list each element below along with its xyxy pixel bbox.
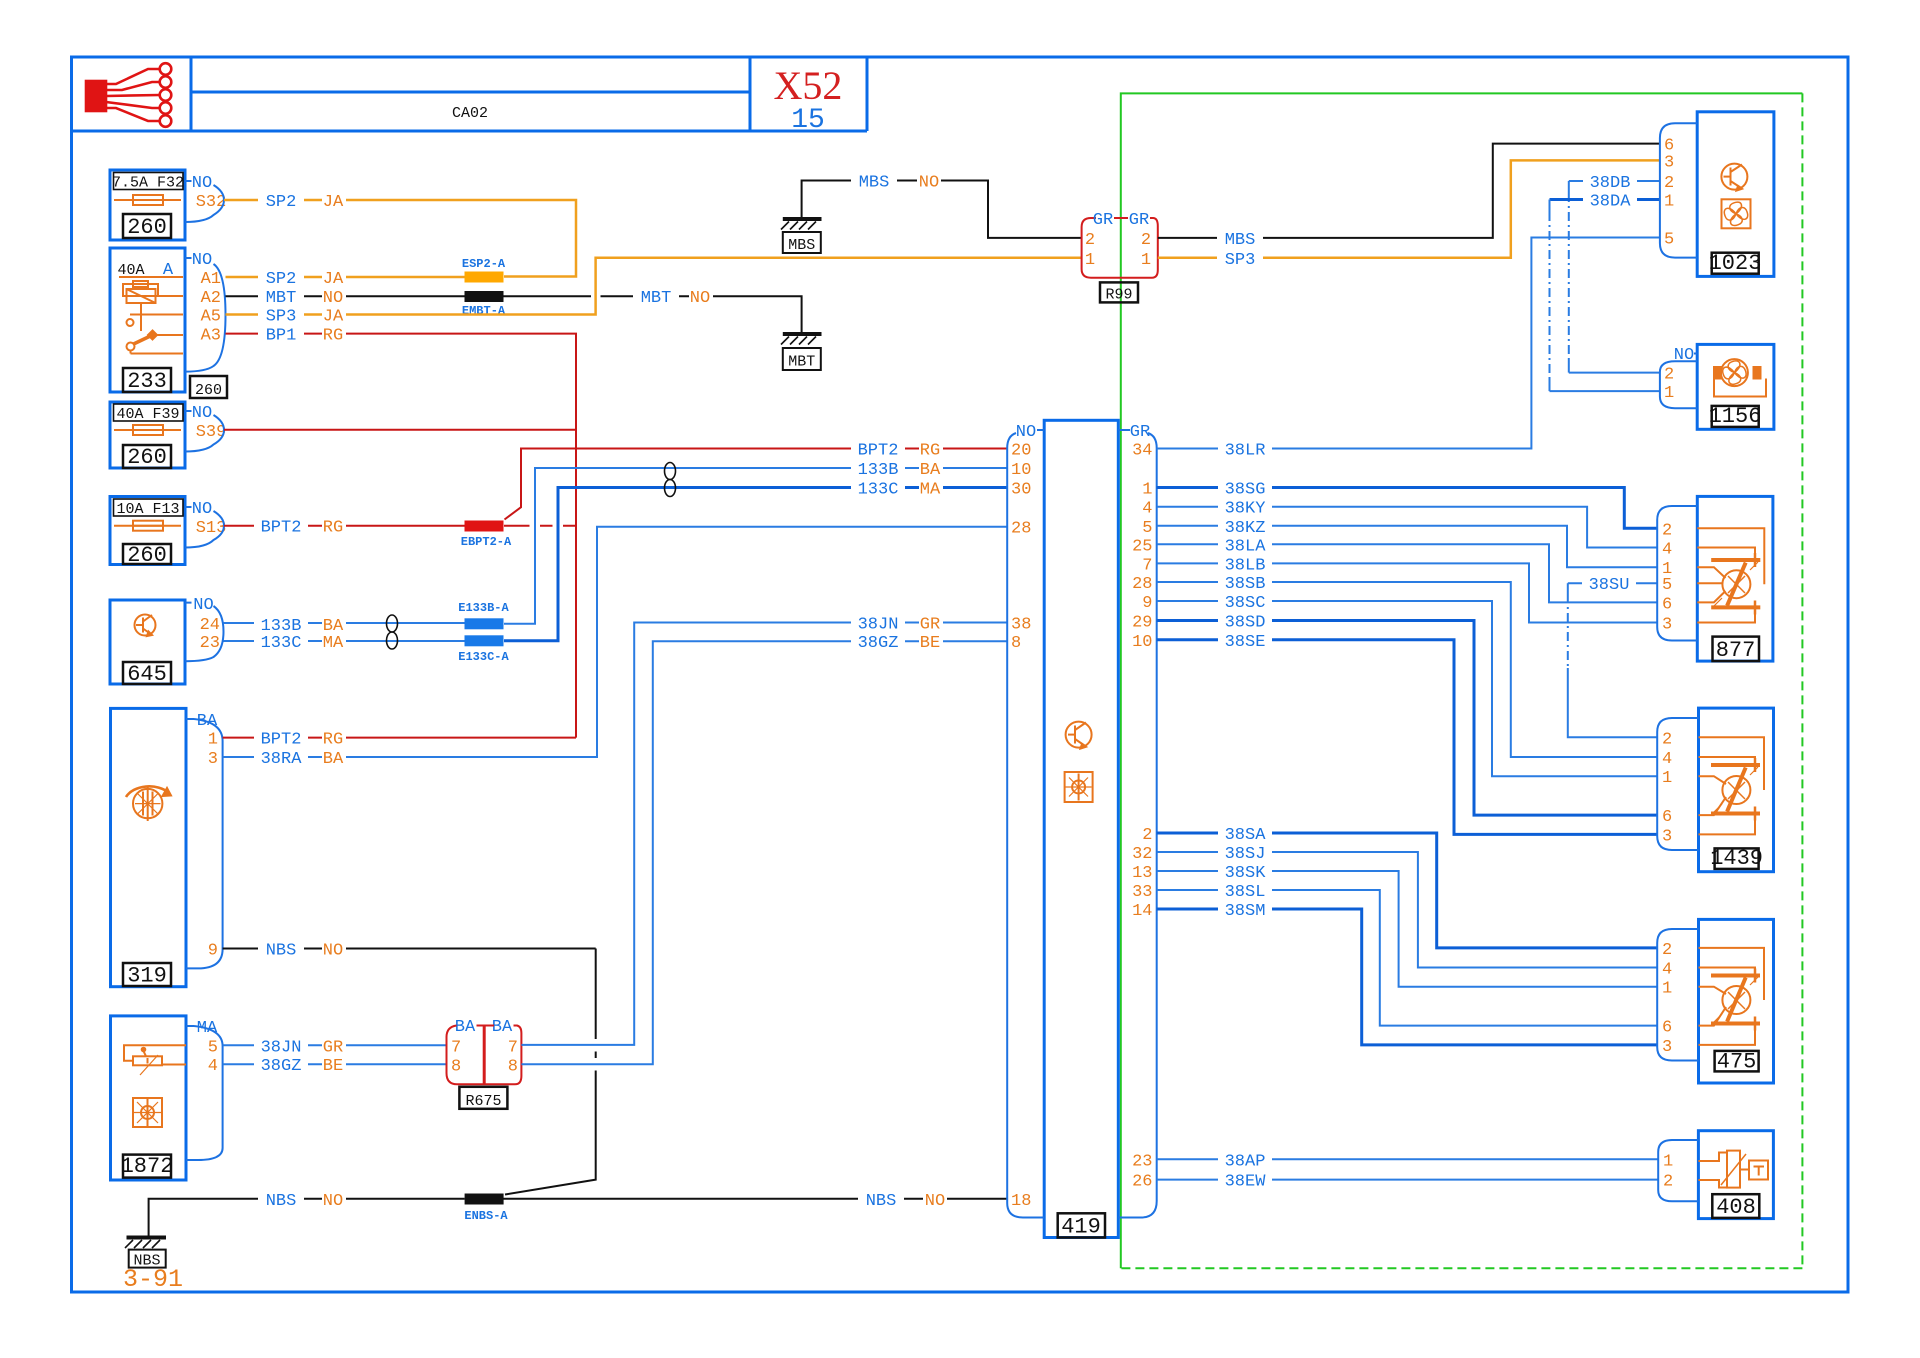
wire 38JN from 1872 pin 5 to R675 — [223, 1037, 447, 1057]
wire 38GZ from 1872 pin 4 to R675 — [223, 1056, 447, 1076]
svg-text:260: 260 — [127, 445, 167, 470]
svg-text:NO: NO — [192, 174, 212, 193]
svg-text:1: 1 — [1141, 251, 1151, 270]
svg-text:MA: MA — [920, 481, 941, 500]
svg-text:10: 10 — [1011, 461, 1031, 480]
svg-text:3: 3 — [208, 750, 218, 769]
unit 475 motor/resistor symbol — [1699, 948, 1765, 1045]
unit 1872 snowflake symbol — [133, 1098, 162, 1127]
svg-text:38DA: 38DA — [1590, 193, 1632, 212]
svg-text:260: 260 — [127, 215, 167, 240]
svg-text:BA: BA — [455, 1018, 476, 1037]
svg-text:JA: JA — [323, 270, 344, 289]
splice ESP2-A — [462, 257, 506, 283]
header title block — [72, 57, 868, 131]
svg-text:38LR: 38LR — [1225, 442, 1266, 461]
svg-text:1: 1 — [208, 731, 218, 750]
svg-text:260: 260 — [127, 543, 167, 568]
wire 38LR from 419 pin 34 to 1156 riser and 1023 pin 5 — [1157, 238, 1660, 461]
svg-text:RG: RG — [323, 519, 343, 538]
svg-text:BA: BA — [323, 750, 344, 769]
svg-text:4: 4 — [1662, 541, 1672, 560]
svg-text:2: 2 — [1662, 730, 1672, 749]
svg-text:15: 15 — [791, 105, 825, 136]
svg-text:GR: GR — [920, 616, 940, 635]
svg-text:1439: 1439 — [1710, 846, 1763, 871]
svg-text:BPT2: BPT2 — [261, 519, 302, 538]
svg-text:23: 23 — [200, 634, 220, 653]
unit 1439 (RH fan unit) — [1699, 708, 1774, 872]
svg-text:38SC: 38SC — [1225, 594, 1266, 613]
ECU 419 left connector bracket NO — [1007, 423, 1044, 1218]
svg-text:10: 10 — [1132, 633, 1152, 652]
svg-text:2: 2 — [1664, 174, 1674, 193]
svg-text:EBPT2-A: EBPT2-A — [461, 535, 512, 549]
svg-text:4: 4 — [1662, 750, 1672, 769]
fuse F39 (40A) box 260 — [110, 402, 185, 470]
svg-text:2: 2 — [1141, 231, 1151, 250]
svg-text:34: 34 — [1132, 442, 1152, 461]
svg-text:38KZ: 38KZ — [1225, 519, 1266, 538]
ground MBT symbol — [781, 334, 822, 371]
svg-text:NO: NO — [925, 1192, 945, 1211]
header sheet code X52 / 15 — [774, 63, 843, 136]
unit 319 connector pins 1 3 9 — [186, 712, 223, 968]
page reference 3-91 — [123, 1265, 183, 1294]
unit 1872 (AC pressure / compressor) — [111, 1016, 187, 1180]
svg-text:NO: NO — [690, 289, 710, 308]
svg-text:GR: GR — [1093, 211, 1113, 230]
svg-text:10A F13: 10A F13 — [116, 501, 179, 518]
svg-text:BA: BA — [920, 461, 941, 480]
svg-text:8: 8 — [1011, 634, 1021, 653]
ground NBS wire — [149, 1191, 1007, 1238]
svg-text:2: 2 — [1142, 826, 1152, 845]
unit 1156 motor symbol — [1714, 359, 1766, 396]
svg-text:233: 233 — [127, 369, 167, 394]
unit 319 A/C knob symbol — [126, 786, 171, 821]
svg-text:23: 23 — [1132, 1152, 1152, 1171]
unit 408 connector pins 1 2 — [1658, 1140, 1698, 1201]
svg-text:40A F39: 40A F39 — [116, 406, 179, 423]
svg-text:260: 260 — [195, 382, 222, 399]
svg-text:408: 408 — [1716, 1195, 1756, 1220]
svg-text:1: 1 — [1085, 251, 1095, 270]
wire 133B from 645 pin 24 to splice E133B-A — [224, 616, 465, 636]
wire 38SB from 419 pin 28 to 1439 pin 4 — [1157, 574, 1658, 757]
wire R675 pin 7 to 419 pin 38 — [521, 615, 1007, 1045]
connector code 260 beside relay — [190, 376, 227, 399]
svg-text:5: 5 — [1662, 576, 1672, 595]
svg-text:32: 32 — [1132, 845, 1152, 864]
splice EMBT-A — [462, 291, 506, 318]
splice E133B-A — [458, 601, 509, 629]
svg-text:1: 1 — [1664, 384, 1674, 403]
wire 133B splice to 419 pin 10 — [504, 468, 1007, 624]
svg-text:9: 9 — [208, 942, 218, 961]
fuse F39 connector pin S39 — [185, 404, 226, 452]
svg-text:MBT: MBT — [641, 289, 672, 308]
wire SP2 from A1 to splice ESP2-A — [226, 269, 465, 289]
svg-text:877: 877 — [1716, 638, 1756, 663]
svg-text:133B: 133B — [858, 461, 899, 480]
svg-text:2: 2 — [1662, 521, 1672, 540]
svg-text:6: 6 — [1662, 1019, 1672, 1038]
wire 38SE from 419 pin 10 to 1439 pin 3 — [1157, 632, 1658, 835]
svg-text:419: 419 — [1061, 1214, 1101, 1239]
svg-text:BPT2: BPT2 — [261, 731, 302, 750]
unit 408 (temperature sensor) — [1698, 1131, 1773, 1221]
wire splice EBPT2-A to BP1 riser (with crossover gaps) — [504, 525, 576, 527]
wire BPT2 from S13 to splice EBPT2-A — [224, 518, 465, 538]
svg-text:R675: R675 — [465, 1093, 501, 1110]
svg-text:28: 28 — [1011, 520, 1031, 539]
unit 1023 (fan control module) — [1697, 112, 1774, 277]
relay 233 internal symbol — [119, 277, 183, 354]
wire 38SJ from 419 pin 32 to 475 pin 4 — [1157, 844, 1658, 968]
svg-text:1: 1 — [1663, 1152, 1673, 1171]
svg-text:MBT: MBT — [266, 289, 297, 308]
splice E133C-A — [458, 635, 509, 664]
ECU 419 transistor symbol — [1066, 722, 1092, 749]
wire 38SA from 419 pin 2 to 475 pin 2 — [1157, 825, 1658, 948]
svg-text:4: 4 — [1662, 961, 1672, 980]
svg-text:1: 1 — [1662, 769, 1672, 788]
unit 1156 connector pins 2 1 — [1660, 346, 1697, 408]
svg-text:319: 319 — [127, 964, 167, 989]
unit 1023 transistor symbol — [1721, 164, 1747, 191]
wire 38SU from 877 pin 5 to 1439 pin 2 — [1568, 575, 1657, 737]
wire 38LA from 419 pin 25 to 877 pin 6 — [1157, 536, 1658, 602]
twisted pair marker near 419 — [665, 463, 676, 497]
svg-text:28: 28 — [1132, 575, 1152, 594]
splice ENBS-A — [464, 1194, 508, 1224]
svg-text:A2: A2 — [201, 289, 221, 308]
fuse F13 connector pin S13 — [185, 500, 226, 548]
svg-text:NBS: NBS — [266, 1192, 297, 1211]
wire R675 pin 8 to 419 pin 8 — [521, 633, 1007, 1064]
svg-text:RG: RG — [920, 442, 940, 461]
svg-text:NO: NO — [192, 500, 212, 519]
ECU 419 body — [1044, 420, 1118, 1239]
wire 38SM from 419 pin 14 to 475 pin 3 — [1157, 901, 1658, 1045]
wire 38DB 1023 pin 2 to 1156 pin 2 — [1569, 173, 1660, 373]
svg-text:BE: BE — [323, 1057, 343, 1076]
svg-text:SP2: SP2 — [266, 270, 297, 289]
svg-text:GR: GR — [1130, 423, 1150, 442]
svg-text:X52: X52 — [774, 63, 843, 108]
svg-text:38SU: 38SU — [1589, 576, 1630, 595]
svg-text:SP2: SP2 — [266, 193, 297, 212]
unit 877 connector pins 2 4 1 5 6 3 — [1657, 506, 1697, 641]
svg-text:NO: NO — [192, 404, 212, 423]
unit 645 connector pins 24 23 — [185, 596, 224, 661]
svg-text:4: 4 — [1142, 500, 1152, 519]
svg-text:E133B-A: E133B-A — [458, 601, 509, 615]
svg-text:2: 2 — [1085, 231, 1095, 250]
svg-text:S13: S13 — [196, 519, 227, 538]
svg-text:MBS: MBS — [788, 237, 815, 254]
svg-text:3-91: 3-91 — [123, 1265, 183, 1294]
svg-text:EMBT-A: EMBT-A — [462, 304, 506, 318]
svg-text:BE: BE — [920, 634, 940, 653]
wire 38LB from 419 pin 7 to 877 pin 3 — [1157, 555, 1658, 622]
svg-text:1: 1 — [1664, 193, 1674, 212]
svg-text:NO: NO — [1016, 423, 1036, 442]
unit 1872 pressure switch symbol — [124, 1045, 186, 1075]
svg-text:GR: GR — [1129, 211, 1149, 230]
svg-text:38JN: 38JN — [858, 616, 899, 635]
svg-text:2: 2 — [1662, 941, 1672, 960]
svg-text:1023: 1023 — [1709, 251, 1762, 276]
wire NBS from 319 pin 9 to splice — [223, 941, 596, 1195]
wire 133C splice to 419 pin 30 — [504, 488, 1007, 641]
wire BPT2 splice riser to 419 pin 20 — [505, 441, 1008, 520]
svg-text:MBS: MBS — [859, 174, 890, 193]
svg-text:133C: 133C — [858, 481, 899, 500]
unit 645 transistor symbol — [135, 615, 156, 637]
svg-text:NBS: NBS — [866, 1192, 897, 1211]
svg-text:38SG: 38SG — [1225, 481, 1266, 500]
svg-text:7: 7 — [508, 1038, 518, 1057]
svg-text:BA: BA — [492, 1018, 513, 1037]
fuse F32 connector pin S32 — [185, 174, 226, 222]
svg-text:MBT: MBT — [788, 354, 815, 371]
svg-text:38SD: 38SD — [1225, 614, 1266, 633]
svg-text:38KY: 38KY — [1225, 500, 1266, 519]
fuse F13 (10A) box 260 — [110, 497, 185, 569]
wire S39 to BP1 riser — [224, 429, 576, 431]
unit 1439 connector pins 2 4 1 6 3 — [1657, 718, 1698, 850]
svg-text:1872: 1872 — [121, 1154, 174, 1179]
svg-text:38JN: 38JN — [261, 1038, 302, 1057]
wire SP3 from R99 pin 1 to 1023 pin 3 — [1158, 160, 1660, 269]
svg-text:38SL: 38SL — [1225, 883, 1266, 902]
unit 475 (LH fan unit) — [1699, 919, 1774, 1083]
svg-text:5: 5 — [208, 1038, 218, 1057]
svg-text:CA02: CA02 — [452, 105, 488, 122]
svg-text:38LB: 38LB — [1225, 556, 1266, 575]
svg-text:E133C-A: E133C-A — [458, 650, 509, 664]
relay 233 (40A A) — [110, 248, 185, 394]
svg-text:6: 6 — [1662, 808, 1672, 827]
wire 38AP from 419 pin 23 to 408 pin 1 — [1157, 1151, 1659, 1171]
ECU 419 snowflake symbol — [1065, 772, 1093, 802]
svg-text:38SB: 38SB — [1225, 575, 1266, 594]
wire labels 133B BA near 419 — [851, 460, 943, 500]
svg-text:30: 30 — [1011, 481, 1031, 500]
svg-text:NBS: NBS — [266, 942, 297, 961]
svg-text:38GZ: 38GZ — [858, 634, 899, 653]
wire 38SD from 419 pin 29 to 1439 pin 6 — [1157, 613, 1658, 816]
svg-text:5: 5 — [1664, 231, 1674, 250]
svg-text:38SJ: 38SJ — [1225, 845, 1266, 864]
wire 38KY from 419 pin 4 to 877 pin 4 — [1157, 499, 1658, 548]
svg-text:475: 475 — [1717, 1049, 1757, 1074]
svg-text:38EW: 38EW — [1225, 1173, 1267, 1192]
fuse F32 (7.5A) box 260 — [110, 170, 185, 240]
svg-text:NO: NO — [323, 1192, 343, 1211]
svg-text:3: 3 — [1662, 616, 1672, 635]
green harness boundary — [1121, 93, 1803, 1268]
svg-text:4: 4 — [208, 1057, 218, 1076]
svg-text:2: 2 — [1664, 366, 1674, 385]
wire SP2 from S32 to splice ESP2-A — [224, 192, 576, 277]
wire 38EW from 419 pin 26 to 408 pin 2 — [1157, 1172, 1659, 1192]
wire 38SK from 419 pin 13 to 475 pin 1 — [1157, 863, 1658, 987]
svg-text:NO: NO — [193, 596, 213, 615]
svg-text:S39: S39 — [196, 423, 227, 442]
svg-text:5: 5 — [1142, 519, 1152, 538]
connector R675 — [447, 1018, 522, 1110]
svg-text:MA: MA — [323, 634, 344, 653]
svg-text:38SA: 38SA — [1225, 826, 1267, 845]
svg-text:3: 3 — [1662, 827, 1672, 846]
unit 408 thermistor symbol — [1698, 1151, 1768, 1188]
unit 1156 (fan motor) — [1697, 344, 1774, 429]
svg-text:38SK: 38SK — [1225, 864, 1267, 883]
svg-text:8: 8 — [508, 1058, 518, 1077]
svg-text:1: 1 — [1662, 980, 1672, 999]
unit 475 connector pins 2 4 1 6 3 — [1657, 929, 1698, 1061]
wire 38SG from 419 pin 1 to 877 pin 2 — [1157, 480, 1658, 529]
svg-text:38SE: 38SE — [1225, 633, 1266, 652]
svg-text:7: 7 — [451, 1038, 461, 1057]
svg-text:9: 9 — [1142, 594, 1152, 613]
svg-text:SP3: SP3 — [1225, 251, 1256, 270]
svg-text:38AP: 38AP — [1225, 1152, 1266, 1171]
svg-text:13: 13 — [1132, 864, 1152, 883]
svg-text:A1: A1 — [201, 270, 221, 289]
svg-text:20: 20 — [1011, 442, 1031, 461]
wire 38DA 1023 pin 1 to 1156 pin 1 — [1550, 192, 1661, 392]
svg-text:ESP2-A: ESP2-A — [462, 257, 506, 271]
wire MBS ground to R99 pin 2 — [802, 173, 1082, 238]
svg-text:26: 26 — [1132, 1173, 1152, 1192]
svg-text:NO: NO — [919, 174, 939, 193]
relay 233 connector pins A1 A2 A5 A3 — [185, 251, 226, 372]
header text CA02 — [452, 105, 488, 122]
ground MBS symbol — [781, 219, 822, 254]
wire SP3 from A5 to R99 pin 1 — [226, 258, 1082, 327]
unit 1023 connector pins 6 3 2 1 5 — [1660, 123, 1697, 257]
logo (red harness symbol) — [86, 63, 171, 127]
wire 38SL from 419 pin 33 to 475 pin 6 — [1157, 882, 1658, 1026]
svg-text:NO: NO — [323, 942, 343, 961]
svg-text:29: 29 — [1132, 614, 1152, 633]
svg-text:8: 8 — [451, 1058, 461, 1077]
splice EBPT2-A — [461, 521, 512, 550]
wire MBT from A2 through splice EMBT-A to ground MBT — [226, 288, 802, 334]
svg-text:38LA: 38LA — [1225, 537, 1267, 556]
wire 133C from 645 pin 23 to splice E133C-A — [224, 633, 465, 653]
connector R99 — [1082, 211, 1158, 303]
unit 1023 fan symbol — [1722, 199, 1751, 228]
ECU 419 right connector bracket GR — [1118, 423, 1156, 1218]
svg-text:NO: NO — [192, 251, 212, 270]
svg-text:BPT2: BPT2 — [858, 442, 899, 461]
svg-text:7.5A F32: 7.5A F32 — [112, 175, 184, 192]
wire 38KZ from 419 pin 5 to 877 pin 1 — [1157, 518, 1658, 567]
unit 645 (sensor) — [110, 600, 185, 687]
svg-text:7: 7 — [1142, 556, 1152, 575]
svg-text:18: 18 — [1011, 1192, 1031, 1211]
wire MBS from R99 pin 2 to 1023 pin 6 — [1158, 144, 1660, 250]
svg-text:JA: JA — [323, 193, 344, 212]
svg-text:38DB: 38DB — [1590, 174, 1631, 193]
svg-text:RG: RG — [323, 731, 343, 750]
svg-text:6: 6 — [1662, 595, 1672, 614]
unit 877 motor/resistor symbol — [1697, 528, 1764, 622]
svg-text:38: 38 — [1011, 616, 1031, 635]
svg-text:1156: 1156 — [1709, 404, 1762, 429]
wire 38SC from 419 pin 9 to 1439 pin 1 — [1157, 593, 1658, 776]
unit 1439 motor/resistor symbol — [1699, 737, 1765, 834]
svg-text:3: 3 — [1664, 153, 1674, 172]
svg-text:GR: GR — [323, 1038, 343, 1057]
svg-text:38RA: 38RA — [261, 750, 303, 769]
ground NBS symbol — [125, 1238, 166, 1270]
svg-text:A5: A5 — [201, 308, 221, 327]
unit 1872 connector pins 5 4 — [186, 1019, 223, 1160]
svg-text:3: 3 — [1662, 1038, 1672, 1057]
svg-text:2: 2 — [1663, 1173, 1673, 1192]
twisted pair marker near 645 — [387, 615, 398, 649]
svg-text:645: 645 — [127, 662, 167, 687]
svg-text:SP3: SP3 — [266, 308, 297, 327]
svg-text:1: 1 — [1142, 481, 1152, 500]
svg-text:33: 33 — [1132, 883, 1152, 902]
svg-text:ENBS-A: ENBS-A — [464, 1209, 508, 1223]
svg-text:38GZ: 38GZ — [261, 1057, 302, 1076]
svg-text:133C: 133C — [261, 634, 302, 653]
svg-text:24: 24 — [200, 616, 220, 635]
unit 319 (climate control panel) — [111, 708, 187, 988]
svg-text:BP1: BP1 — [266, 327, 297, 346]
svg-text:RG: RG — [323, 327, 343, 346]
svg-text:14: 14 — [1132, 902, 1152, 921]
svg-text:JA: JA — [323, 308, 344, 327]
svg-text:38SM: 38SM — [1225, 902, 1266, 921]
svg-text:MBS: MBS — [1225, 231, 1256, 250]
svg-text:A3: A3 — [201, 327, 221, 346]
unit 877 (blower motor + resistors) — [1697, 496, 1773, 663]
wire BP1 from A3 down distribution — [226, 326, 577, 738]
wire 38RA from 319 pin 3 to 419 pin 28 — [223, 527, 1007, 769]
wire BPT2 from 319 pin 1 — [223, 730, 576, 750]
svg-text:R99: R99 — [1105, 286, 1132, 303]
svg-text:NO: NO — [323, 289, 343, 308]
svg-text:25: 25 — [1132, 537, 1152, 556]
